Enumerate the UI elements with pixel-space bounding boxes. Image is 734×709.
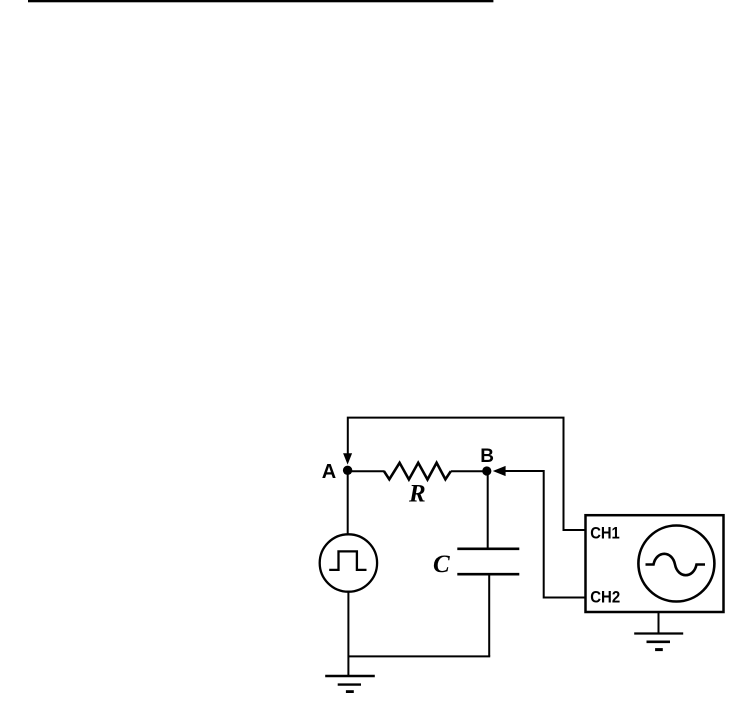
- oscilloscope sine icon: [638, 526, 714, 602]
- svg-text:CH1: CH1: [590, 525, 620, 543]
- ground under oscilloscope: [634, 634, 683, 650]
- resistor R: [384, 463, 451, 480]
- wire: bottom rail: [349, 655, 491, 657]
- wire: node A down to pulse source: [347, 470, 349, 535]
- svg-text:A: A: [322, 461, 336, 483]
- node B: [482, 466, 491, 475]
- wire: oscilloscope ground stub: [658, 612, 660, 634]
- wire: node A up and over to oscilloscope CH1: [348, 418, 586, 530]
- wire: resistor to node B: [451, 470, 487, 472]
- wire: capacitor bottom lead: [488, 574, 490, 656]
- wire: node B down to capacitor top plate: [487, 471, 489, 549]
- oscilloscope box: [586, 515, 724, 612]
- pulse source: [320, 534, 377, 591]
- wire: node A to resistor: [348, 470, 385, 472]
- ground under pulse source: [325, 676, 375, 692]
- arrow into node B: [493, 466, 506, 476]
- svg-text:C: C: [433, 551, 450, 578]
- svg-text:R: R: [408, 481, 426, 508]
- svg-text:B: B: [480, 446, 494, 467]
- svg-text:CH2: CH2: [590, 589, 620, 607]
- capacitor C plates: [457, 549, 519, 574]
- arrow into node A: [343, 453, 352, 464]
- node A: [343, 466, 352, 475]
- wire: pulse source down to ground: [347, 592, 349, 677]
- wire: node B over and down to oscilloscope CH2: [504, 471, 586, 598]
